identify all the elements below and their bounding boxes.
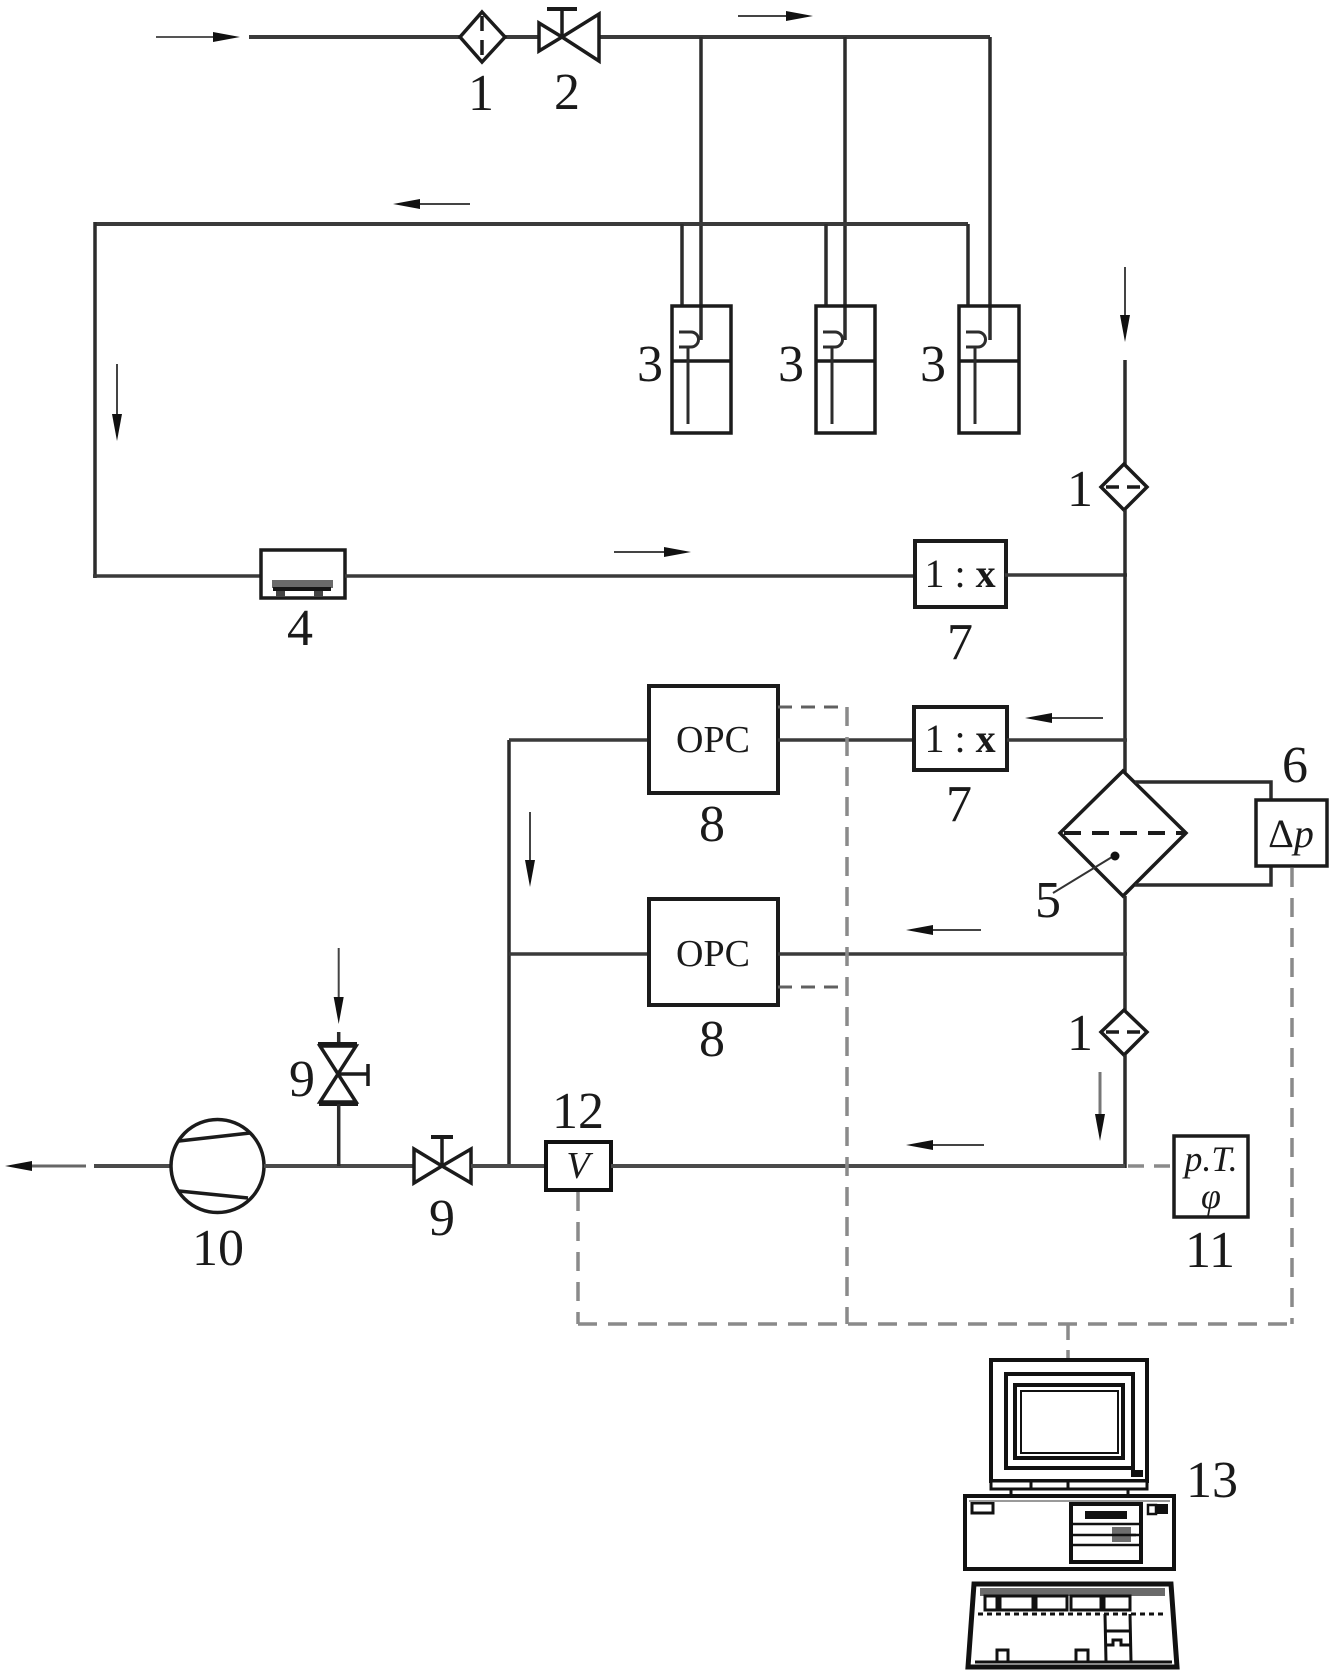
dp cell 6 (delta-p box) xyxy=(1256,800,1327,866)
svg-text:10: 10 xyxy=(192,1220,244,1277)
valve 2 (pressure reducing valve with T-stem) xyxy=(539,9,599,61)
mixer 5 (large diamond with dashed diagonal) xyxy=(1060,771,1186,896)
control line: data bus vertical xyxy=(845,707,849,1324)
wire: impinger 3b outlet tube xyxy=(824,224,828,306)
wire: drop to impinger 3c inner tube xyxy=(988,37,992,340)
svg-text:1: 1 xyxy=(468,65,494,122)
svg-text:8: 8 xyxy=(699,1011,725,1068)
svg-text:8: 8 xyxy=(699,796,725,853)
leader line for label 5 xyxy=(1053,857,1112,893)
wire: OPC 8b to main vertical xyxy=(778,952,1127,956)
wire: pump to valve 9h xyxy=(264,1164,415,1168)
flow arrow (exhaust line, leftward) xyxy=(929,1144,984,1146)
filter 1 (top, diamond with vertical dashed line) xyxy=(460,12,505,62)
svg-text:Δp: Δp xyxy=(1268,811,1314,856)
computer 13: monitor xyxy=(991,1360,1147,1481)
wire: bleed branch into valve 9v xyxy=(337,1032,341,1046)
wire: bracket from mixer 5 to dp cell xyxy=(1135,782,1271,885)
dilutor 7b (1:x box) xyxy=(914,707,1007,770)
svg-text:V: V xyxy=(566,1145,593,1187)
impinger 3b (gas washing bottle) xyxy=(816,306,875,433)
svg-text:9: 9 xyxy=(429,1190,455,1247)
control line: flowmeter 12 output xyxy=(576,1192,580,1324)
impinger 3a (gas washing bottle) xyxy=(672,306,731,433)
svg-text:11: 11 xyxy=(1185,1222,1235,1279)
dilutor 7a (1:x box) xyxy=(915,541,1006,607)
flow arrow (row 1, leftward) xyxy=(1048,717,1103,719)
bleed branch: flow arrow (downward) xyxy=(338,948,340,1000)
inlet flow arrow (sample inlet, downward) xyxy=(1124,267,1126,318)
svg-text:OPC: OPC xyxy=(676,933,750,975)
svg-text:4: 4 xyxy=(287,600,313,657)
svg-text:1 : x: 1 : x xyxy=(924,551,995,596)
svg-text:2: 2 xyxy=(554,64,580,121)
wire: left loop vertical xyxy=(93,222,97,578)
valve 9v (vertical needle valve with side handle) xyxy=(318,1044,368,1104)
flowmeter 12 (V box) xyxy=(546,1142,611,1190)
flow arrow (OPC branch, downward) xyxy=(529,812,531,864)
wire: flowmeter 12 to main vertical xyxy=(611,1164,1125,1168)
wire: return manifold line xyxy=(95,222,968,226)
flow arrow (down to exhaust line) xyxy=(1099,1072,1102,1118)
svg-text:9: 9 xyxy=(289,1051,315,1108)
flow arrow (row 2, leftward) xyxy=(929,929,981,931)
svg-text:1 : x: 1 : x xyxy=(924,716,995,761)
wire: impinger 3c outlet tube xyxy=(966,224,970,306)
flow arrow (left loop, downward) xyxy=(116,364,118,418)
svg-text:φ: φ xyxy=(1201,1176,1221,1216)
OPC 8b (optical particle counter) xyxy=(649,899,778,1005)
wire: filter 1a down to mixer 5 xyxy=(1123,510,1127,772)
wire: drop to impinger 3b inner tube xyxy=(843,37,847,340)
svg-text:12: 12 xyxy=(552,1083,604,1140)
computer 13: monitor base xyxy=(991,1481,1147,1497)
pump 10 (circle with vanes) xyxy=(171,1120,264,1213)
flow arrow (return manifold, leftward) xyxy=(416,203,470,205)
impinger 3c (gas washing bottle) xyxy=(959,306,1019,433)
control line: sensor 11 tap xyxy=(1128,1164,1172,1168)
svg-text:OPC: OPC xyxy=(676,719,750,761)
wire: branch to OPC 8a xyxy=(509,738,649,742)
svg-text:7: 7 xyxy=(946,776,972,833)
svg-text:3: 3 xyxy=(920,336,946,393)
wire: humidifier 4 to dilutor 7a xyxy=(345,574,915,578)
svg-text:6: 6 xyxy=(1282,737,1308,794)
humidifier 4 (box with tray) xyxy=(261,550,345,598)
svg-text:p.T.: p.T. xyxy=(1181,1139,1237,1179)
computer 13: keyboard xyxy=(968,1584,1177,1667)
wire: sample line into filter 1a xyxy=(1123,360,1127,465)
filter 1a (diamond with horizontal dashed line) xyxy=(1101,464,1147,510)
control line: OPC 8a output xyxy=(778,706,847,709)
wire: impinger 3a outlet tube xyxy=(680,224,684,306)
wire: branch to OPC 8b xyxy=(509,952,649,956)
wire: OPC 8a to dilutor 7b xyxy=(778,738,914,742)
valve 9h (inline valve with T-stem) xyxy=(414,1137,471,1183)
sensor 11 (p T phi box) xyxy=(1174,1136,1248,1217)
control line: dp cell 6 output xyxy=(1290,868,1294,1324)
flow arrow (conditioner line, rightward) xyxy=(614,551,668,553)
wire: dilutor 7b to main vertical xyxy=(1007,738,1127,742)
svg-text:3: 3 xyxy=(778,336,804,393)
wire: filter 1b down to exhaust line xyxy=(1123,1055,1127,1168)
wire: exhaust line to pump xyxy=(94,1164,172,1168)
wire: loop bottom to humidifier 4 xyxy=(93,574,261,578)
control line: OPC 8b output xyxy=(778,986,847,989)
wire: OPC branch vertical (left) xyxy=(507,740,511,1166)
wire: mixer 5 down xyxy=(1123,896,1127,1010)
wire: valve 9v down to exhaust line xyxy=(337,1104,341,1166)
filter 1b (diamond with horizontal dashed line) xyxy=(1101,1010,1147,1055)
svg-text:13: 13 xyxy=(1186,1452,1238,1509)
svg-text:7: 7 xyxy=(947,614,973,671)
wire: dilutor 7a to main vertical xyxy=(1005,573,1127,577)
exhaust arrow (leftward out) xyxy=(28,1165,86,1168)
control line: bus horizontal xyxy=(578,1322,1292,1326)
svg-text:5: 5 xyxy=(1035,872,1061,929)
flow arrow (top line, rightward) xyxy=(738,15,790,17)
wire: valve 9h to flowmeter 12 xyxy=(471,1164,546,1168)
wire: top supply line xyxy=(249,35,990,39)
OPC 8a (optical particle counter) xyxy=(649,686,778,793)
inlet flow arrow (top left) xyxy=(156,36,218,38)
svg-text:1: 1 xyxy=(1067,1005,1093,1062)
svg-text:3: 3 xyxy=(637,336,663,393)
wire: drop to impinger 3a inner tube xyxy=(699,37,703,340)
control line: bus to computer xyxy=(1066,1324,1070,1358)
svg-text:1: 1 xyxy=(1067,461,1093,518)
computer 13: system unit xyxy=(965,1496,1174,1569)
